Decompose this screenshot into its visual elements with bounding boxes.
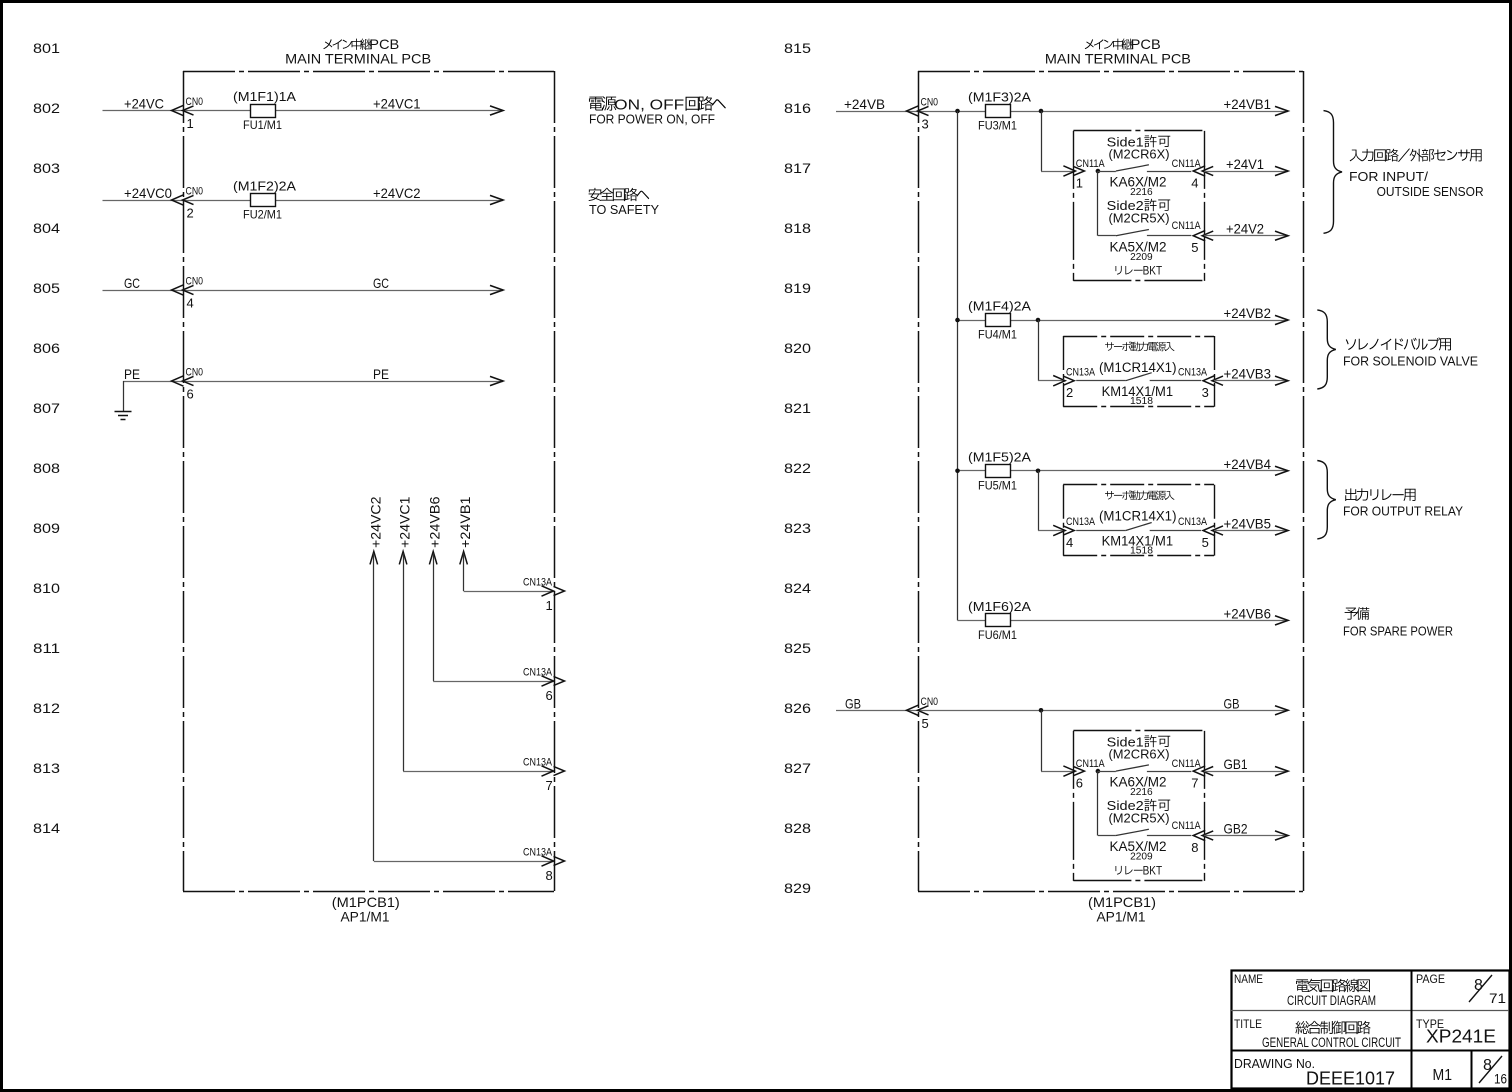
connector CN0 pin 3 [907,97,939,132]
fuse FU3/M1 (M1F3)2A [968,90,1031,133]
wire PE (row 806) with CN0 pin 6 [123,366,503,382]
arrow +24VB1 out [1275,106,1288,115]
svg-text:CN11A: CN11A [1172,158,1202,170]
branch wire to Side2 contact [1097,771,1099,835]
svg-text:8: 8 [1191,840,1198,855]
svg-text:CIRCUIT DIAGRAM: CIRCUIT DIAGRAM [1287,993,1376,1008]
title block DRAWING No. cell: DEEE1017 [1234,1057,1395,1089]
svg-text:XP241E: XP241E [1426,1027,1496,1047]
svg-text:812: 812 [33,700,60,716]
svg-text:811: 811 [33,640,60,656]
svg-text:6: 6 [546,688,553,703]
connector CN11A pin 5 (right lower) [1172,220,1214,255]
svg-text:GC: GC [373,275,389,291]
wire +24VC0 (row 803) with CN0 pin 2, to +24VC2 [103,185,504,201]
riser wire +24VB1 to CN13A pin 1 [457,496,564,613]
svg-text:BKT: BKT [1143,863,1163,877]
svg-text:823: 823 [784,520,811,536]
junction node bus at +24VB2 [955,318,960,323]
svg-text:FOR POWER ON, OFF: FOR POWER ON, OFF [589,112,715,127]
junction node relay branch [1096,769,1101,774]
svg-text:829: 829 [784,880,811,896]
svg-text:6: 6 [1076,776,1083,791]
svg-text:GB1: GB1 [1224,756,1248,772]
svg-text:1: 1 [1076,175,1083,190]
svg-text:810: 810 [33,580,60,596]
brace for output relay group [1317,461,1336,539]
relay bracket box リレーBKT [1073,131,1204,281]
svg-text:2: 2 [187,206,194,221]
fuse FU2/M1 (M1F2)2A [233,179,296,222]
connector CN0 pin 1 [172,96,204,131]
svg-text:AP1/M1: AP1/M1 [1097,909,1146,925]
svg-text:CN11A: CN11A [1172,220,1202,232]
connector CN11A pin 6 (left) [1063,758,1105,791]
svg-text:1518: 1518 [1130,396,1153,407]
svg-text:CN13A: CN13A [1178,366,1208,378]
left PCB title メイン中継PCB / MAIN TERMINAL PCB [285,36,431,67]
svg-text:2216: 2216 [1130,787,1153,798]
svg-text:AP1/M1: AP1/M1 [341,909,390,925]
svg-text:816: 816 [784,100,811,116]
svg-text:FOR INPUT/: FOR INPUT/ [1349,169,1428,184]
junction node relay branch [1096,169,1101,174]
relay box label リレーBKT [1115,266,1121,275]
svg-text:CN0: CN0 [186,96,204,108]
svg-text:+24VB2: +24VB2 [1224,305,1272,321]
arrow +24VB6 out [1275,616,1288,625]
relay box heading Side2許可 (M2CR5X) [1107,798,1171,825]
svg-text:807: 807 [33,400,60,416]
svg-text:819: 819 [784,280,811,296]
svg-text:(M1F6)2A: (M1F6)2A [968,599,1031,614]
title block page 8/16 cell [1479,1056,1507,1087]
drop wire from +24VB4 junction to servo box 2 [1038,471,1040,531]
svg-text:+24V2: +24V2 [1226,221,1264,237]
servo contact KM14X1/M1 [1076,523,1201,557]
svg-text:825: 825 [784,640,811,656]
connector CN11A pin 4 (right) [1172,158,1214,191]
connector CN11A pin 7 (right) [1172,758,1214,791]
svg-text:FU6/M1: FU6/M1 [978,628,1017,642]
wire GC (row 805) with CN0 pin 4 [103,275,504,291]
right PCB bottom label (M1PCB1) AP1/M1 [1088,894,1156,925]
svg-text:CN0: CN0 [921,696,939,708]
drop wire from GB junction to relay block 2 [1041,710,1043,771]
wire +24VB3 out of servo box [1214,366,1288,386]
svg-text:3: 3 [1202,385,1209,400]
relay contact KA6X/M2 (Side1) [1098,165,1191,198]
brace for input/outside sensor group [1324,111,1343,234]
svg-text:(M1F3)2A: (M1F3)2A [968,90,1031,105]
svg-text:GB: GB [845,695,861,711]
svg-text:DEEE1017: DEEE1017 [1306,1068,1395,1089]
annotation 安全回路へ TO SAFETY [589,188,660,217]
svg-text:CN11A: CN11A [1172,820,1202,832]
bus wire down from row 816 to row 824 [957,111,959,620]
svg-text:16: 16 [1494,1071,1507,1087]
svg-text:OUTSIDE SENSOR: OUTSIDE SENSOR [1377,184,1484,199]
svg-text:802: 802 [33,100,60,116]
svg-text:M1: M1 [1433,1067,1453,1084]
svg-text:4: 4 [187,296,194,311]
svg-text:(M1F4)2A: (M1F4)2A [968,299,1031,314]
svg-text:826: 826 [784,700,811,716]
svg-text:2209: 2209 [1130,852,1153,863]
svg-text:+24VC0: +24VC0 [124,185,172,201]
relay contact KA6X/M2 (Side1) [1098,765,1191,798]
connector CN0 pin 5 [907,696,939,731]
svg-text:GC: GC [124,275,140,291]
svg-text:(M2CR5X): (M2CR5X) [1109,210,1170,225]
svg-text:PE: PE [373,366,389,382]
svg-text:7: 7 [546,778,553,793]
svg-text:NAME: NAME [1234,972,1263,986]
svg-text:+24VC: +24VC [124,96,164,112]
servo power box サーボ動力電源入 (M1CR14X1) [1063,336,1214,407]
svg-text:BKT: BKT [1143,263,1163,277]
svg-text:813: 813 [33,760,60,776]
arrow +24VB4 out [1275,466,1288,475]
svg-text:CN0: CN0 [921,97,939,109]
svg-text:71: 71 [1489,990,1506,1006]
svg-text:CN0: CN0 [186,276,204,288]
svg-text:+24VB4: +24VB4 [1224,456,1272,472]
brace for solenoid valve group [1317,310,1336,389]
relay contact KA5X/M2 (Side2) [1098,829,1191,862]
wire +24V2 out of relay 1 [1204,221,1288,241]
right PCB title メイン中継PCB / MAIN TERMINAL PCB [1045,36,1191,67]
svg-text:FOR SPARE POWER: FOR SPARE POWER [1343,623,1453,638]
svg-text:1: 1 [187,116,194,131]
svg-text:+24VB6: +24VB6 [427,496,443,548]
svg-text:806: 806 [33,340,60,356]
svg-text:(M1F2)2A: (M1F2)2A [233,179,296,194]
svg-text:818: 818 [784,220,811,236]
arrow +24VC1 out [490,106,503,115]
svg-text:TO SAFETY: TO SAFETY [589,202,659,217]
row number labels 815-829 (right ladder) [784,40,811,896]
svg-text:+24VC1: +24VC1 [373,96,421,112]
servo power box サーボ動力電源入 (M1CR14X1) [1063,485,1214,556]
arrow +24VC2 out [490,195,503,204]
svg-text:1: 1 [546,598,553,613]
drop wire from +24VB2 junction to servo box 1 [1038,320,1040,381]
svg-text:824: 824 [784,580,811,596]
relay box label リレーBKT [1115,866,1121,875]
annotation 電源ON,OFF回路へ FOR POWER ON,OFF [589,96,726,126]
wire GB (row 826) with CN0 pin 5 [836,695,1288,711]
svg-text:MAIN TERMINAL PCB: MAIN TERMINAL PCB [1045,51,1191,67]
connector CN0 pin 2 [172,186,204,221]
svg-text:FU1/M1: FU1/M1 [243,118,282,132]
svg-text:828: 828 [784,820,811,836]
svg-text:803: 803 [33,160,60,176]
svg-text:4: 4 [1191,175,1198,190]
svg-text:2209: 2209 [1130,252,1153,263]
svg-text:CN13A: CN13A [523,757,553,769]
relay box heading Side1許可 (M2CR6X) [1107,734,1171,761]
svg-text:817: 817 [784,160,811,176]
wire +24VC (row 802) with CN0 pin 1 connector, to +24VC1 [103,96,504,112]
arrow GC out [490,285,503,294]
svg-text:804: 804 [33,220,60,236]
svg-text:2216: 2216 [1130,187,1153,198]
svg-text:(M1F5)2A: (M1F5)2A [968,449,1031,464]
fuse FU6/M1 (M1F6)2A [968,599,1031,642]
svg-text:FU5/M1: FU5/M1 [978,478,1017,492]
svg-text:6: 6 [187,387,194,402]
annotation ソレノイドバルブ用 FOR SOLENOID VALVE [1343,337,1478,368]
wire +24VB5 out of servo box [1214,516,1288,536]
svg-text:MAIN TERMINAL PCB: MAIN TERMINAL PCB [285,51,431,67]
svg-text:821: 821 [784,400,811,416]
title block frame [1231,970,1510,1089]
riser wire +24VC2 to CN13A pin 8 [367,496,564,883]
title block NAME cell: 電気回路線図 CIRCUIT DIAGRAM [1234,972,1376,1008]
svg-text:(M2CR6X): (M2CR6X) [1109,747,1170,762]
main terminal PCB boundary box AP1/M1 (left) [183,71,555,892]
row number labels 801-814 (left ladder) [33,40,60,836]
svg-text:FOR SOLENOID VALVE: FOR SOLENOID VALVE [1343,353,1478,368]
junction node bus top [955,109,960,114]
fuse FU4/M1 (M1F4)2A [968,299,1031,342]
svg-text:+24VC2: +24VC2 [373,185,421,201]
junction node bus at +24VB4 [955,469,960,474]
svg-text:827: 827 [784,760,811,776]
svg-text:4: 4 [1066,535,1073,550]
svg-text:3: 3 [922,117,929,132]
relay bracket box リレーBKT [1073,731,1204,881]
svg-text:+24VB3: +24VB3 [1224,366,1272,382]
svg-text:+24VB5: +24VB5 [1224,516,1272,532]
svg-text:CN13A: CN13A [523,847,553,859]
connector CN11A pin 1 (left) [1063,158,1105,191]
annotation 予備 FOR SPARE POWER [1343,607,1453,638]
svg-text:PE: PE [124,366,140,382]
wire +24VB2 row through fuse FU4/M1 [958,305,1289,321]
svg-text:(M1F1)1A: (M1F1)1A [233,89,296,104]
title block TYPE cell: XP241E [1416,1017,1496,1047]
title block PAGE cell: 8/71 [1416,972,1506,1006]
branch wire to Side2 contact [1097,171,1099,236]
svg-text:5: 5 [1202,535,1209,550]
wire GB2 out of relay 2 [1204,821,1288,841]
relay box heading Side2許可 (M2CR5X) [1107,198,1171,225]
svg-text:7: 7 [1191,776,1198,791]
svg-text:GENERAL CONTROL CIRCUIT: GENERAL CONTROL CIRCUIT [1262,1035,1401,1050]
svg-text:PAGE: PAGE [1416,972,1445,986]
svg-text:+24VB: +24VB [844,96,885,112]
riser wire +24VC1 to CN13A pin 7 [397,496,565,793]
junction node to relay KA6X [1039,109,1044,114]
fuse FU1/M1 (M1F1)1A [233,89,296,132]
connector CN11A pin 8 (right lower) [1172,820,1214,855]
svg-text:1518: 1518 [1130,546,1153,557]
svg-text:814: 814 [33,820,60,836]
svg-text:CN11A: CN11A [1076,758,1106,770]
servo contact KM14X1/M1 [1076,373,1201,407]
svg-text:822: 822 [784,460,811,476]
left PCB bottom label (M1PCB1) AP1/M1 [332,894,400,925]
main terminal PCB boundary box AP1/M1 (right) [918,71,1304,892]
junction node branch at +24VB2 [1036,318,1041,323]
wire +24VB4 row through fuse FU5/M1 [958,456,1289,472]
svg-text:CN13A: CN13A [523,667,553,679]
connector CN13A pin 2 (left) [1053,366,1095,400]
svg-text:CN13A: CN13A [523,577,553,589]
drop wire from +24VB1 junction to relay block 1 [1041,111,1043,171]
svg-text:(M1CR14X1): (M1CR14X1) [1099,509,1177,524]
svg-text:815: 815 [784,40,811,56]
svg-text:809: 809 [33,520,60,536]
svg-text:+24VB6: +24VB6 [1224,605,1272,621]
svg-text:+24VC2: +24VC2 [367,496,383,548]
annotation 出力リレー用 FOR OUTPUT RELAY [1343,488,1463,518]
svg-text:+24VB1: +24VB1 [1224,96,1272,112]
svg-text:CN11A: CN11A [1076,158,1106,170]
svg-text:CN11A: CN11A [1172,758,1202,770]
connector CN0 pin 6 [172,367,204,402]
svg-text:CN13A: CN13A [1066,516,1096,528]
svg-text:(M2CR5X): (M2CR5X) [1109,810,1170,825]
svg-text:CN0: CN0 [186,367,204,379]
svg-text:(M1CR14X1): (M1CR14X1) [1099,360,1177,375]
svg-text:GB: GB [1224,695,1240,711]
wire +24VB6 row through fuse FU6/M1 [958,605,1289,621]
svg-text:CN13A: CN13A [1066,366,1096,378]
svg-text:5: 5 [1191,240,1198,255]
svg-text:FU2/M1: FU2/M1 [243,208,282,222]
svg-text:FOR OUTPUT RELAY: FOR OUTPUT RELAY [1343,503,1463,518]
title block TITLE cell: 総合制御回路 GENERAL CONTROL CIRCUIT [1234,1017,1401,1050]
arrow GB out [1275,706,1288,715]
annotation 入力回路/外部センサ用 FOR INPUT/OUTSIDE SENSOR [1349,149,1484,199]
svg-text:+24V1: +24V1 [1226,156,1264,172]
svg-text:TITLE: TITLE [1234,1017,1262,1031]
wire GB1 out of relay 2 [1204,756,1288,776]
connector CN13A pin 3 (right) [1178,366,1223,400]
svg-text:808: 808 [33,460,60,476]
junction node branch at +24VB4 [1036,469,1041,474]
svg-text:8: 8 [1483,1057,1492,1074]
arrow +24VB2 out [1275,315,1288,324]
svg-text:5: 5 [922,716,929,731]
wire +24V1 out of relay 1 [1204,156,1288,176]
junction node GB branch [1039,708,1044,713]
svg-text:FU3/M1: FU3/M1 [978,119,1017,133]
svg-text:801: 801 [33,40,60,56]
connector CN0 pin 4 [172,276,204,311]
relay contact KA5X/M2 (Side2) [1098,230,1191,263]
svg-text:DRAWING No.: DRAWING No. [1234,1057,1315,1071]
fuse FU5/M1 (M1F5)2A [968,449,1031,492]
svg-text:8: 8 [546,868,553,883]
svg-text:CN0: CN0 [186,186,204,198]
riser wire +24VB6 to CN13A pin 6 [427,496,565,703]
svg-text:CN13A: CN13A [1178,516,1208,528]
relay box heading Side1許可 (M2CR6X) [1107,134,1171,161]
svg-text:GB2: GB2 [1224,821,1248,837]
connector CN13A pin 4 (left) [1053,516,1095,550]
svg-text:+24VC1: +24VC1 [397,496,413,548]
svg-text:820: 820 [784,340,811,356]
connector CN13A pin 5 (right) [1178,516,1223,550]
arrow PE out [490,376,503,385]
svg-text:(M2CR6X): (M2CR6X) [1109,147,1170,162]
wire +24VB (row 816) with CN0 pin 3 [836,96,1288,112]
svg-text:+24VB1: +24VB1 [457,496,473,548]
svg-text:805: 805 [33,280,60,296]
ground symbol on PE [115,381,132,420]
svg-text:2: 2 [1066,385,1073,400]
svg-text:FU4/M1: FU4/M1 [978,328,1017,342]
